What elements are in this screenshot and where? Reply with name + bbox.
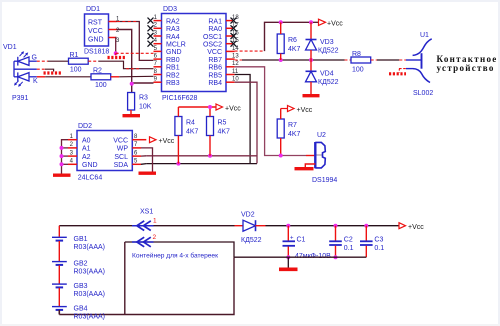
svg-text:A2: A2 bbox=[82, 154, 91, 161]
svg-text:VD4: VD4 bbox=[320, 71, 334, 78]
svg-text:C2: C2 bbox=[344, 237, 353, 244]
IC DD2 24LC64 bbox=[77, 123, 132, 182]
resistor R2 100 bbox=[91, 68, 111, 90]
svg-text:устройство: устройство bbox=[437, 63, 495, 73]
wire DD2 address pins to ground bus bbox=[62, 140, 69, 174]
DD2 left pin numbers bbox=[70, 134, 74, 165]
svg-text:DS1994: DS1994 bbox=[312, 177, 337, 184]
junction DD1 gnd bbox=[114, 51, 118, 55]
svg-text:RA1: RA1 bbox=[208, 18, 222, 25]
svg-text:DD3: DD3 bbox=[163, 6, 177, 13]
junction R5 bottom bbox=[208, 154, 212, 158]
svg-text:2: 2 bbox=[153, 234, 157, 241]
junction at R3 top bbox=[130, 82, 134, 86]
svg-text:100: 100 bbox=[352, 67, 364, 74]
wire DD2 SCL line bbox=[141, 155, 146, 157]
ground C1 bbox=[279, 267, 298, 271]
svg-text:RB0: RB0 bbox=[166, 57, 180, 64]
svg-text:VD3: VD3 bbox=[320, 39, 334, 46]
power +Vcc arrow R7 bbox=[281, 106, 313, 115]
svg-text:R8: R8 bbox=[352, 51, 361, 58]
svg-text:R4: R4 bbox=[186, 120, 195, 127]
power +Vcc arrow DD2 pin8 bbox=[150, 137, 175, 145]
capacitor C3 0.1 bbox=[360, 226, 384, 258]
svg-text:+: + bbox=[290, 236, 294, 242]
wire U1 second contact (red dashed to ground) bbox=[399, 69, 413, 73]
svg-text:PIC16F628: PIC16F628 bbox=[162, 95, 198, 102]
wire battery bottom to loop bbox=[58, 310, 60, 315]
wire DD1 pin2 to RB3 and R3 bbox=[117, 30, 154, 93]
svg-text:GND: GND bbox=[88, 37, 104, 44]
DD3 right pin numbers bbox=[232, 15, 239, 83]
DD2 right pin numbers bbox=[134, 134, 138, 165]
svg-text:RB3: RB3 bbox=[166, 80, 180, 87]
junction R6 bottom bbox=[279, 58, 283, 62]
diode VD2 KD522 bbox=[235, 212, 266, 245]
resistor R6 4K7 bbox=[277, 22, 300, 60]
svg-text:SL002: SL002 bbox=[413, 90, 433, 97]
svg-text:4K7: 4K7 bbox=[288, 46, 301, 53]
svg-text:100: 100 bbox=[95, 82, 107, 89]
svg-text:VD2: VD2 bbox=[241, 212, 255, 219]
wire top +Vcc rail bbox=[265, 22, 319, 51]
LED VD1 emission arrows bbox=[14, 51, 28, 87]
ground U2 bbox=[295, 167, 314, 170]
iButton U2 DS1994 bbox=[315, 142, 325, 168]
svg-text:+Vcc: +Vcc bbox=[225, 106, 241, 113]
wire battery loop bbox=[59, 242, 234, 315]
svg-text:RB7: RB7 bbox=[208, 57, 222, 64]
svg-text:VCC: VCC bbox=[88, 28, 103, 35]
resistor R7 4K7 bbox=[277, 109, 300, 156]
junction C3 top bbox=[364, 224, 368, 228]
svg-text:RST: RST bbox=[88, 20, 103, 27]
svg-text:VCC: VCC bbox=[113, 138, 128, 145]
ground LED (red dashed bar) bbox=[44, 71, 63, 74]
svg-text:DD1: DD1 bbox=[86, 6, 100, 13]
wire DD3 pin12 RB6 to U2 line bbox=[235, 67, 306, 156]
svg-text:A0: A0 bbox=[82, 138, 91, 145]
svg-text:SDA: SDA bbox=[114, 162, 129, 169]
wire DD3 pin14 VCC to top rail (red dashed) bbox=[235, 50, 265, 52]
svg-text:17: 17 bbox=[232, 23, 239, 29]
svg-text:10K: 10K bbox=[139, 104, 152, 111]
svg-text:GB2: GB2 bbox=[74, 261, 88, 268]
svg-text:U1: U1 bbox=[420, 32, 429, 39]
wire LED1 to R1 bbox=[37, 60, 69, 62]
junction VD3/VD4 bbox=[309, 58, 313, 62]
wire R8 to contact device U1 bbox=[371, 59, 422, 61]
svg-text:P391: P391 bbox=[12, 95, 28, 102]
svg-text:R3: R3 bbox=[139, 95, 148, 102]
resistor R4 4K7 bbox=[175, 107, 199, 164]
wire LED common cathode to ground bbox=[37, 69, 54, 71]
svg-text:DD2: DD2 bbox=[78, 123, 92, 130]
wire R3 to ground bbox=[130, 110, 132, 114]
wire VD2 to +Vcc rail bbox=[266, 225, 400, 227]
svg-text:VCC: VCC bbox=[207, 49, 222, 56]
ground DD1 (red dashed bar) bbox=[108, 53, 127, 57]
svg-text:RB5: RB5 bbox=[208, 72, 222, 79]
svg-text:R03(AAA): R03(AAA) bbox=[74, 291, 106, 298]
svg-text:RB2: RB2 bbox=[166, 72, 180, 79]
resistor R3 10K bbox=[128, 93, 152, 111]
svg-text:4K7: 4K7 bbox=[288, 131, 301, 138]
DD1 pin stubs bbox=[109, 22, 117, 38]
svg-text:КД522: КД522 bbox=[241, 237, 262, 244]
XS1 pin2 chevron bbox=[132, 237, 154, 247]
wire U2 bottom contact to ground bbox=[305, 164, 315, 167]
junction C2 bottom bbox=[334, 255, 338, 259]
wire GND net to DD3 pin5 (red dashed) bbox=[116, 52, 154, 54]
svg-text:GB1: GB1 bbox=[74, 236, 88, 243]
svg-text:GB4: GB4 bbox=[74, 306, 88, 313]
svg-text:RA0: RA0 bbox=[208, 26, 222, 33]
svg-text:RA3: RA3 bbox=[166, 26, 180, 33]
svg-text:G: G bbox=[32, 55, 37, 62]
resistor R5 4K7 bbox=[207, 107, 231, 156]
svg-text:КД522: КД522 bbox=[318, 79, 339, 86]
power +Vcc arrow mid bbox=[216, 104, 241, 113]
X marks unconnected right pins 18-15 bbox=[231, 18, 237, 47]
svg-text:GND: GND bbox=[82, 162, 98, 169]
svg-text:+Vcc: +Vcc bbox=[159, 138, 175, 145]
svg-text:4K7: 4K7 bbox=[218, 129, 231, 136]
wire DD3 pin13 RB7 bus to R8 bbox=[235, 59, 351, 61]
svg-text:0.1: 0.1 bbox=[374, 245, 384, 252]
junction R5 top bbox=[208, 105, 212, 109]
junction C2 top bbox=[334, 224, 338, 228]
svg-text:C1: C1 bbox=[297, 237, 306, 244]
svg-text:+Vcc: +Vcc bbox=[408, 224, 424, 231]
wire DD2 WP to ground bbox=[141, 148, 153, 172]
svg-text:47мкФ-10В: 47мкФ-10В bbox=[295, 253, 331, 260]
battery GB1 bbox=[52, 226, 105, 251]
wire DD1 pin3 GND down bbox=[115, 38, 118, 54]
svg-text:GND: GND bbox=[166, 49, 182, 56]
svg-text:1: 1 bbox=[153, 218, 157, 225]
svg-text:+Vcc: +Vcc bbox=[297, 107, 313, 114]
svg-text:R5: R5 bbox=[218, 120, 227, 127]
DD3 right pin stubs bbox=[226, 21, 235, 83]
svg-text:RB6: RB6 bbox=[208, 65, 222, 72]
diode VD4 KD522 bbox=[306, 60, 339, 94]
svg-text:GB3: GB3 bbox=[74, 283, 88, 290]
wire into U2 (red segment) bbox=[306, 155, 315, 157]
svg-text:24LC64: 24LC64 bbox=[78, 175, 103, 182]
resistor R1 100 bbox=[69, 52, 89, 74]
ground DD2 bus bbox=[53, 173, 71, 176]
DD2 right pin stubs bbox=[132, 140, 146, 165]
svg-text:15: 15 bbox=[232, 38, 239, 44]
wire R2 to DD3 pin8 RB2 bbox=[111, 75, 154, 78]
ground R3 bbox=[123, 114, 141, 117]
svg-text:R6: R6 bbox=[288, 37, 297, 44]
svg-text:RB4: RB4 bbox=[208, 80, 222, 87]
svg-text:U2: U2 bbox=[317, 132, 326, 139]
svg-text:КД522: КД522 bbox=[318, 48, 339, 55]
wire R1 to DD3 pin7 RB1 (with jog) bbox=[88, 61, 153, 68]
junction R7 bottom bbox=[279, 154, 283, 158]
wire DD3 pin11 RB5 to SDA line bbox=[146, 75, 257, 164]
svg-text:K: K bbox=[33, 78, 38, 85]
label Kontaktnoe ustroystvo bbox=[437, 54, 498, 73]
svg-text:VD1: VD1 bbox=[3, 44, 17, 51]
svg-text:DS1818: DS1818 bbox=[84, 49, 109, 56]
power +Vcc arrow top bbox=[319, 19, 344, 27]
wire R4 R5 tops to +Vcc bbox=[178, 106, 216, 108]
capacitor C2 0.1 bbox=[329, 226, 353, 258]
junction R6 top bbox=[279, 20, 283, 24]
junction R4 bottom bbox=[176, 162, 180, 166]
DD1 pin numbers 1 2 3 bbox=[116, 16, 120, 44]
junction C1 top bbox=[286, 224, 290, 228]
battery GB3 bbox=[52, 265, 105, 298]
ground VD4 bbox=[303, 94, 320, 97]
svg-text:OSC2: OSC2 bbox=[203, 42, 222, 49]
svg-text:13: 13 bbox=[232, 54, 239, 60]
wire DD2 SDA line bbox=[141, 163, 146, 166]
svg-text:WP: WP bbox=[117, 146, 129, 153]
wire DD3 pin10 RB4 to SCL line bbox=[146, 82, 257, 163]
wire C1 to ground bbox=[287, 257, 289, 267]
svg-text:C3: C3 bbox=[374, 237, 383, 244]
svg-text:RB1: RB1 bbox=[166, 65, 180, 72]
wire battery top rail bbox=[59, 225, 234, 227]
svg-text:XS1: XS1 bbox=[140, 209, 153, 216]
resistor R8 100 bbox=[351, 51, 371, 74]
svg-text:R03(AAA): R03(AAA) bbox=[74, 244, 106, 251]
svg-text:16: 16 bbox=[232, 30, 239, 36]
svg-text:R1: R1 bbox=[70, 52, 79, 59]
svg-text:R03(AAA): R03(AAA) bbox=[74, 269, 106, 276]
svg-text:Контейнер для 4-х батереек: Контейнер для 4-х батереек bbox=[132, 252, 218, 260]
svg-text:R2: R2 bbox=[93, 68, 102, 75]
wire DD1 pin1 to DD3 pin6 RB0 bbox=[117, 22, 154, 61]
battery GB2 bbox=[52, 241, 105, 276]
svg-text:RA2: RA2 bbox=[166, 18, 180, 25]
wire ground rail bottom bbox=[234, 256, 366, 258]
junction C1 bottom bbox=[286, 255, 290, 259]
svg-text:R7: R7 bbox=[288, 122, 297, 129]
svg-text:100: 100 bbox=[70, 67, 82, 74]
svg-text:A1: A1 bbox=[82, 146, 91, 153]
XS1 pin1 chevron bbox=[132, 221, 154, 231]
ground DD2 WP bbox=[139, 171, 157, 174]
wire LED2 to R2 bbox=[37, 76, 91, 78]
X marks unconnected left pins 1-4 bbox=[148, 18, 154, 47]
svg-text:R03(AAA): R03(AAA) bbox=[74, 314, 106, 321]
LED VD1 dual P391 bbox=[14, 57, 37, 81]
svg-text:+Vcc: +Vcc bbox=[327, 21, 343, 28]
IC DD1 DS1818 bbox=[84, 6, 109, 56]
DD2 left pin stubs bbox=[68, 140, 77, 165]
capacitor C1 47uF polarized bbox=[283, 226, 332, 260]
svg-text:4K7: 4K7 bbox=[186, 129, 199, 136]
DD3 left pin stubs bbox=[154, 21, 162, 83]
contact device U1 SL002 bbox=[413, 39, 432, 83]
wire XS1 pin2 return bbox=[125, 242, 234, 257]
junction VD3 top bbox=[309, 20, 313, 24]
svg-text:MCLR: MCLR bbox=[166, 42, 186, 49]
svg-text:0.1: 0.1 bbox=[344, 245, 354, 252]
IC DD3 PIC16F628 bbox=[162, 6, 227, 102]
ground U1 (red dashed bar) bbox=[389, 72, 406, 75]
svg-text:OSC1: OSC1 bbox=[203, 34, 222, 41]
svg-text:18: 18 bbox=[232, 15, 239, 21]
power +Vcc arrow bottom bbox=[399, 223, 424, 231]
svg-text:RA4: RA4 bbox=[166, 34, 180, 41]
battery GB4 bbox=[52, 288, 105, 321]
DD3 left pin numbers bbox=[154, 15, 158, 83]
svg-text:SCL: SCL bbox=[114, 154, 128, 161]
diode VD3 KD522 bbox=[306, 22, 339, 60]
junctions DD2 ground bus bbox=[60, 146, 64, 150]
